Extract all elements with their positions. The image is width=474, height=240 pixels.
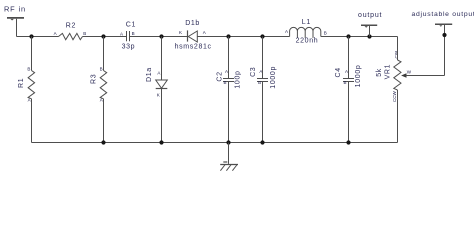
wire output connector to top rail	[369, 25, 371, 36]
wire C2 top	[228, 37, 230, 79]
svg-text:CCW: CCW	[392, 91, 397, 102]
svg-text:220nh: 220nh	[296, 37, 319, 44]
wire D1a bottom	[161, 89, 163, 143]
svg-text:B: B	[258, 80, 261, 85]
junction dot D1a/top rail	[159, 34, 163, 38]
wire D1a top	[161, 37, 163, 81]
svg-text:D1b: D1b	[185, 20, 200, 27]
svg-text:A: A	[225, 69, 228, 74]
svg-text:output: output	[358, 12, 382, 19]
wire R1 bottom	[31, 99, 33, 143]
capacitor C3 1000p	[250, 66, 277, 89]
svg-text:B: B	[223, 80, 226, 85]
svg-text:B: B	[324, 31, 327, 36]
junction dot R3/top rail	[101, 34, 105, 38]
svg-text:A: A	[345, 69, 348, 74]
junction dot C3/top rail	[260, 34, 264, 38]
svg-text:B: B	[100, 67, 103, 72]
svg-text:B: B	[27, 67, 30, 72]
wire C3 top	[262, 37, 264, 79]
svg-text:R3: R3	[91, 74, 98, 84]
svg-text:A: A	[120, 31, 123, 36]
node RF in label	[4, 4, 26, 13]
junction dot C4/bottom rail	[346, 140, 350, 144]
wire RF in to top rail	[16, 19, 18, 37]
wire bottom rail	[32, 142, 398, 144]
svg-text:L1: L1	[302, 19, 311, 26]
junction dot C4/top rail	[346, 34, 350, 38]
junction dot C3/bottom rail	[260, 140, 264, 144]
svg-text:hsms281c: hsms281c	[175, 44, 212, 51]
svg-text:W: W	[407, 69, 412, 74]
output port connector	[361, 25, 377, 28]
junction dot on adjustable output wire	[442, 33, 446, 37]
svg-text:C2: C2	[216, 71, 223, 81]
diode D1a (vertical, cathode down)	[146, 67, 167, 97]
svg-text:A: A	[259, 69, 262, 74]
svg-text:D1a: D1a	[146, 67, 153, 82]
potentiometer VR1 5k (vertical)	[376, 50, 401, 102]
svg-text:K: K	[179, 30, 182, 35]
ground symbol	[220, 162, 238, 171]
svg-text:C4: C4	[335, 67, 342, 77]
wire R3 top	[103, 37, 105, 71]
junction dot output/top rail	[367, 34, 371, 38]
wire top rail segment 3 (C1 to D1b)	[130, 36, 187, 38]
node adjustable output label	[412, 11, 474, 18]
svg-text:A: A	[203, 30, 206, 35]
svg-text:A: A	[28, 98, 31, 103]
wire C2 bottom	[228, 82, 230, 143]
wire C3 bottom	[262, 82, 264, 143]
inductor L1 220nh	[285, 19, 327, 45]
junction dot ground/bottom rail	[226, 140, 230, 144]
svg-text:R1: R1	[18, 78, 25, 88]
svg-text:R2: R2	[66, 23, 76, 30]
svg-text:RF in: RF in	[4, 4, 26, 13]
svg-text:5k: 5k	[376, 68, 383, 77]
capacitor C1 33p	[120, 22, 136, 51]
wire VR1 bottom	[397, 90, 399, 143]
wire C4 top	[348, 37, 350, 79]
svg-text:100p: 100p	[235, 70, 242, 88]
wire adjustable output connector down to wiper wire	[444, 24, 446, 75]
VR1 wiper arrow	[401, 69, 412, 77]
svg-text:adjustable output: adjustable output	[412, 11, 474, 18]
svg-text:A: A	[100, 98, 103, 103]
resistor R1 (vertical)	[18, 67, 35, 103]
svg-text:33p: 33p	[122, 43, 136, 50]
wire top rail segment 2 (R2 to C1)	[83, 36, 127, 38]
svg-text:B: B	[343, 80, 346, 85]
svg-text:C1: C1	[126, 22, 136, 29]
svg-text:VR1: VR1	[385, 64, 392, 80]
svg-text:1000p: 1000p	[270, 66, 277, 89]
svg-text:K: K	[157, 92, 160, 97]
wire ground stub	[228, 143, 230, 164]
resistor R2	[54, 23, 87, 40]
svg-text:B: B	[83, 31, 86, 36]
resistor R3 (vertical)	[91, 67, 107, 103]
wire top rail segment 5 (L1 to VR1 corner)	[321, 36, 398, 38]
node output label	[358, 12, 382, 19]
diode D1b hsms281c (horizontal, cathode left)	[175, 20, 212, 50]
wire top rail segment 1 (input to R2)	[17, 36, 59, 38]
svg-text:CW: CW	[394, 50, 399, 58]
capacitor C4 1000p	[335, 65, 362, 88]
wire wiper to adjustable output	[406, 75, 445, 77]
RF in port connector	[7, 18, 24, 21]
junction dot R1/top rail	[29, 34, 33, 38]
junction dot C2/top rail	[226, 34, 230, 38]
svg-text:A: A	[157, 70, 160, 75]
wire R1 top	[31, 37, 33, 71]
adjustable output port connector	[435, 24, 452, 27]
svg-text:A: A	[285, 29, 288, 34]
junction dot R3/bottom rail	[101, 140, 105, 144]
svg-text:B: B	[132, 31, 135, 36]
svg-text:A: A	[54, 31, 57, 36]
wire R3 bottom	[103, 99, 105, 143]
svg-text:1000p: 1000p	[355, 65, 362, 88]
wire VR1 top	[397, 37, 399, 61]
svg-text:C3: C3	[250, 67, 257, 77]
wire C4 bottom	[348, 82, 350, 143]
capacitor C2 100p	[216, 69, 241, 88]
wire top rail segment 4 (D1b to L1)	[197, 36, 289, 38]
junction dot D1a/bottom rail	[159, 140, 163, 144]
